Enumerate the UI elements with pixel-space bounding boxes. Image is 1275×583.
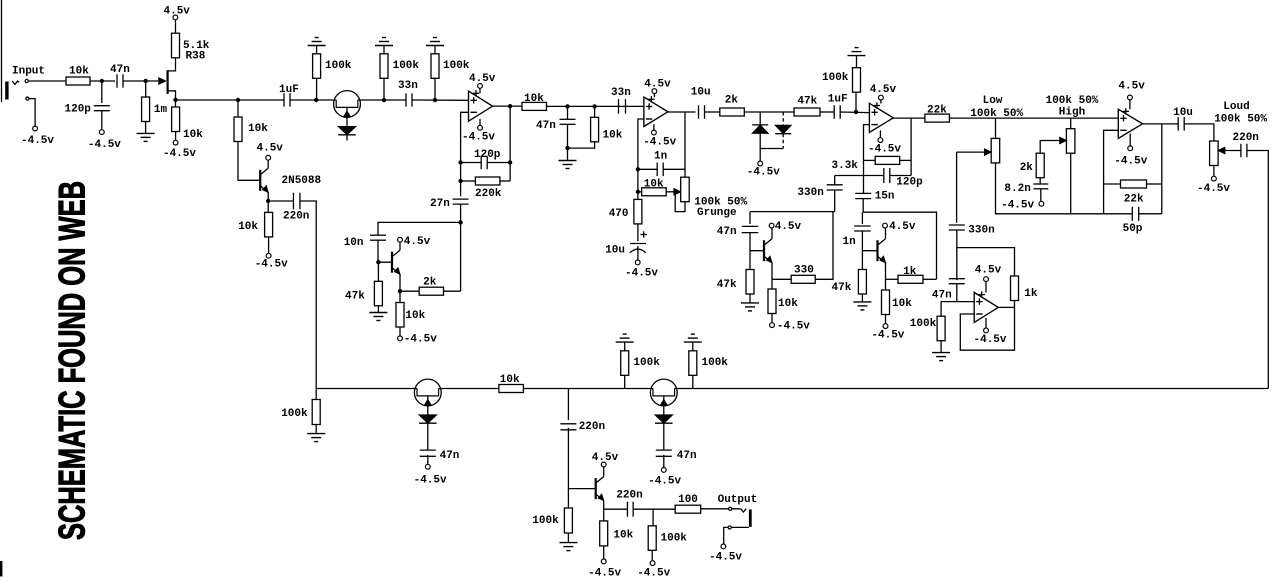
resistor 10k Q6 emitter (603, 509, 605, 521)
resistor 47k cell B (749, 251, 751, 270)
wire Low bottom to presence rail (996, 163, 1133, 214)
capacitor 120p U3 feedback (864, 175, 884, 177)
frame left border (1, 0, 3, 102)
svg-text:220n: 220n (579, 421, 605, 433)
resistor 10k bottom rail (499, 385, 524, 393)
wire 33n to 100k-3 (412, 99, 469, 101)
resistor 470 U2 feedback lower (637, 192, 639, 200)
svg-text:4.5v: 4.5v (257, 143, 284, 155)
resistor 100 output series (675, 505, 701, 513)
svg-text:4.5v: 4.5v (164, 6, 191, 18)
terminal 4.5v Q6 (603, 467, 605, 477)
capacitor 50p U4 feedback (1131, 207, 1133, 221)
wire 330n to rail A (834, 190, 836, 212)
resistor 3.3k U3 feedback (864, 159, 876, 161)
terminal 4.5v Q4 (771, 228, 773, 238)
svg-text:10k: 10k (778, 298, 798, 310)
svg-text:100k: 100k (443, 60, 470, 72)
svg-text:-4.5v: -4.5v (871, 329, 904, 341)
wire 47n to JFET gate (123, 80, 161, 82)
wire U3 out to tone rail (949, 117, 1118, 119)
wire High wiper to 2k (1040, 141, 1061, 154)
resistor 47k cell A (377, 262, 379, 281)
terminal 4.5v U1 (479, 88, 481, 93)
svg-text:27n: 27n (430, 198, 450, 210)
capacitor 330n cell D input (956, 152, 958, 223)
ground below 47k cell C (861, 294, 863, 302)
svg-text:2N5088: 2N5088 (282, 175, 322, 187)
terminal 4.5v U5 (985, 282, 987, 293)
resistor 5.1k R38 drain load (172, 33, 180, 58)
resistor 100k bias bottom mid1 (624, 351, 626, 389)
wire 1n to base cell C (862, 231, 876, 251)
capacitor 1uF stage1 coupling (283, 93, 285, 107)
wire 1uF to buffer1 (290, 99, 334, 101)
capacitor 220n output (1240, 144, 1242, 158)
capacitor 47n buffer B2 (427, 423, 429, 450)
terminal -4.5v cell B (771, 314, 773, 323)
svg-text:2k: 2k (725, 95, 739, 107)
svg-text:-4.5v: -4.5v (648, 476, 681, 488)
transistor Q5 cell C (876, 240, 878, 261)
resistor 10k cell B emitter (771, 279, 773, 289)
op-amp U3 (869, 103, 893, 132)
ground below 47k cell B (749, 294, 751, 303)
wire U3 output (893, 117, 925, 119)
wire U2 inverting input (638, 119, 644, 192)
svg-text:-4.5v: -4.5v (414, 475, 447, 487)
terminal -4.5v 2N5088 emitter (268, 237, 270, 254)
svg-text:220n: 220n (283, 211, 309, 223)
wire U2 feedback tap (684, 112, 686, 177)
terminal -4.5v Q6 emitter (603, 546, 605, 559)
svg-text:4.5v: 4.5v (889, 221, 916, 233)
svg-text:4.5v: 4.5v (469, 73, 496, 85)
ground above 100k buffer1 (308, 45, 326, 47)
svg-text:10k: 10k (69, 66, 89, 78)
svg-text:47n: 47n (932, 290, 952, 302)
op-amp U2 (644, 97, 668, 126)
wire 2k cellA to 27n junction (460, 222, 462, 291)
svg-text:100k: 100k (702, 357, 729, 369)
svg-text:120p: 120p (65, 104, 92, 116)
svg-text:4.5v: 4.5v (975, 265, 1002, 277)
buffer B3 circle transistor (650, 379, 677, 406)
diode below buffer B1 (338, 127, 356, 135)
svg-text:-4.5v: -4.5v (462, 131, 495, 143)
resistor 47k stage3 series (794, 108, 820, 116)
resistor 10k input series (66, 77, 90, 85)
capacitor 1n cell C (861, 212, 863, 224)
wire 10k to 47n (90, 80, 115, 82)
svg-text:22k: 22k (1124, 194, 1144, 206)
node 10k left junction (636, 190, 640, 194)
svg-text:1m: 1m (154, 104, 168, 116)
resistor 10k stage2 shunt (594, 106, 596, 117)
capacitor 15n below 3.3k (855, 192, 871, 194)
svg-text:4.5v: 4.5v (870, 84, 897, 96)
terminal -4.5v buffer B2 (427, 455, 429, 464)
terminal -4.5v 8.2n (1040, 189, 1042, 202)
node 1n left junction (636, 167, 640, 171)
svg-text:220k: 220k (475, 188, 502, 200)
capacitor 33n stage1 coupling (384, 99, 406, 101)
wire jack sleeve to -4.5v (29, 99, 35, 126)
wire 220n to bottom rail (1247, 151, 1268, 389)
wire rail A (750, 211, 835, 213)
svg-text:4.5v: 4.5v (775, 221, 802, 233)
svg-text:2k: 2k (1020, 162, 1034, 174)
node 2N5088 emitter junction (266, 199, 270, 203)
svg-text:22k: 22k (927, 105, 947, 117)
svg-text:R38: R38 (186, 51, 206, 63)
capacitor 47n input coupling (116, 74, 118, 88)
svg-text:330n: 330n (968, 225, 994, 237)
resistor 10k source bias (175, 100, 177, 107)
svg-text:100k: 100k (661, 533, 688, 545)
ground above 100k op3 (848, 55, 866, 57)
resistor 100k bias op3 (855, 92, 857, 112)
wire Loud wiper to 220n (1225, 150, 1241, 152)
capacitor 220n bottom (567, 389, 569, 421)
wire Q6 emitter (603, 501, 605, 510)
terminal -4.5v output jack (721, 544, 726, 549)
ground above 100k mid1 (616, 341, 634, 343)
resistor 100k bias bottom mid2 (692, 351, 694, 389)
capacitor 10n cell A (370, 234, 386, 236)
wire 47n to base cell B (750, 233, 763, 251)
svg-text:100k: 100k (910, 318, 937, 330)
terminal -4.5v jack sleeve (33, 126, 38, 131)
buffer B2 circle transistor (414, 379, 441, 406)
svg-text:Grunge: Grunge (697, 207, 737, 219)
svg-text:15n: 15n (875, 191, 895, 203)
svg-text:47k: 47k (797, 96, 817, 108)
wire U1 inverting input (461, 112, 469, 196)
svg-text:47k: 47k (832, 282, 852, 294)
capacitor 47n cell D (949, 278, 965, 280)
transistor Q4 cell B (763, 240, 765, 261)
resistor 100k base bias output Q (567, 489, 569, 508)
svg-text:47n: 47n (440, 450, 460, 462)
svg-text:-4.5v: -4.5v (88, 139, 121, 151)
wire 15n to rail B (862, 199, 864, 213)
wire emitter to 220n (267, 192, 269, 201)
svg-text:33n: 33n (611, 87, 631, 99)
diode D2 clipper down dashed (782, 112, 784, 125)
svg-text:100k: 100k (822, 72, 849, 84)
terminal -4.5v diodes (758, 161, 763, 166)
wire bottom feedback rail (316, 388, 414, 390)
svg-text:47k: 47k (345, 291, 365, 303)
diode below buffer B2 (419, 415, 437, 423)
resistor 100k bias 2 (383, 78, 385, 100)
node op3 input junction (854, 110, 858, 114)
resistor 100k bias 3 (434, 78, 436, 100)
svg-text:-4.5v: -4.5v (868, 144, 901, 156)
capacitor 1n U2 feedback (638, 168, 657, 170)
capacitor 47n stage2 shunt (567, 106, 569, 119)
svg-text:10k: 10k (405, 310, 425, 322)
wire 47n to op-amp plus (956, 284, 958, 302)
ground above 100k-2 (375, 45, 393, 47)
resistor 2k stage3 series (720, 108, 745, 116)
wire 220n to bottom rail (300, 201, 316, 389)
svg-text:-4.5v: -4.5v (255, 259, 288, 271)
wire 100 to output jack (701, 508, 741, 510)
resistor 10k stage2 series (522, 102, 547, 110)
resistor 47k cell C (861, 251, 863, 270)
svg-text:100k: 100k (393, 60, 420, 72)
JFET Q1 input (159, 78, 166, 84)
terminal -4.5v buffer B3 (663, 455, 665, 468)
terminal 4.5v Q3 (399, 242, 401, 250)
node Q3 emitter junction (398, 289, 402, 293)
node U1 output junction (508, 104, 512, 108)
wire U4 inverting input (1104, 130, 1119, 214)
transistor Q3 cell A (391, 252, 393, 273)
node source junction (173, 98, 177, 102)
svg-text:1k: 1k (1024, 288, 1038, 300)
wire cell D feedback rail (957, 248, 1015, 276)
wire U3 inverting input (864, 125, 870, 194)
op-amp U1 (469, 91, 493, 121)
capacitor 8.2n High filter (1039, 178, 1041, 184)
ground below 100k bottom left (315, 425, 317, 434)
terminal -4.5v U3 (879, 130, 881, 138)
svg-text:10n: 10n (344, 237, 364, 249)
svg-text:120p: 120p (896, 177, 923, 189)
svg-text:10k: 10k (644, 179, 664, 191)
wire U1 feedback right side (509, 106, 511, 181)
svg-text:SCHEMATIC FOUND ON WEB: SCHEMATIC FOUND ON WEB (52, 181, 93, 540)
terminal -4.5v Loud (1213, 166, 1215, 177)
terminal -4.5v cell A (399, 327, 401, 336)
terminal -4.5v U1 (479, 119, 481, 126)
terminal -4.5v U4 (1129, 134, 1131, 147)
capacitor 220n 2N5088 out (271, 200, 294, 202)
ground below 100k output (567, 533, 569, 543)
svg-text:Input: Input (12, 66, 45, 78)
svg-text:50p: 50p (1123, 223, 1143, 235)
resistor 10k to 2N5088 base (237, 100, 239, 117)
wire 330 to rail A (815, 212, 833, 280)
svg-text:100k: 100k (325, 60, 352, 72)
svg-text:Output: Output (718, 494, 758, 506)
svg-text:-4.5v: -4.5v (588, 568, 621, 580)
svg-text:10k: 10k (500, 374, 520, 386)
svg-text:1k: 1k (903, 266, 917, 278)
wire Q4 emitter (771, 263, 773, 280)
wire rail stage1 (176, 99, 285, 101)
svg-text:3.3k: 3.3k (832, 160, 859, 172)
svg-text:33n: 33n (398, 80, 418, 92)
wire U1 output (493, 105, 523, 107)
capacitor 47n cell B (749, 212, 751, 224)
resistor 100k bias buffer1 (316, 78, 318, 100)
resistor 10k cell C emitter (885, 279, 887, 290)
svg-text:4.5v: 4.5v (592, 452, 619, 464)
svg-text:10k: 10k (248, 123, 268, 135)
node cell A base (376, 260, 380, 264)
terminal 4.5v 2N5088 collector (267, 160, 269, 168)
resistor 10k 2N5088 emitter (267, 201, 269, 212)
wire 10u to Loud pot (1184, 124, 1214, 141)
wire buffer1 to next (360, 99, 384, 101)
svg-text:2k: 2k (423, 277, 437, 289)
wire 27n junction to 10n (378, 222, 461, 235)
ground below 1m (145, 122, 147, 134)
capacitor 1uF stage3 (833, 105, 835, 119)
wire Q3 emitter (399, 274, 401, 291)
svg-text:100k: 100k (532, 515, 559, 527)
capacitor 10u stage3 coupling (698, 105, 700, 119)
svg-text:10u: 10u (1173, 107, 1193, 119)
wire High bottom to presence rail (1070, 153, 1072, 214)
svg-text:100k 50%: 100k 50% (970, 108, 1023, 120)
svg-text:120p: 120p (474, 149, 501, 161)
svg-text:-4.5v: -4.5v (974, 334, 1007, 346)
svg-text:4.5v: 4.5v (1118, 81, 1145, 93)
node branch to 2N5088 (236, 98, 240, 102)
svg-text:4.5v: 4.5v (404, 236, 431, 248)
terminal -4.5v cell C (885, 315, 887, 324)
svg-text:1n: 1n (654, 151, 667, 163)
svg-text:10k: 10k (524, 93, 544, 105)
wire jack tip to R 10k (29, 80, 66, 82)
terminal 4.5v Q5 (885, 228, 887, 238)
svg-text:-4.5v: -4.5v (643, 137, 676, 149)
node 100k-3 junction (433, 98, 437, 102)
resistor 22k U4 feedback (1104, 183, 1121, 185)
ground below 100k cell D (940, 341, 942, 353)
wire Q5 emitter (885, 263, 887, 280)
wire rail B (863, 212, 936, 279)
frame left lower tick (0, 561, 2, 577)
svg-text:47n: 47n (110, 64, 130, 76)
terminal 4.5v U2 (653, 94, 655, 98)
terminal 4.5v U3 (880, 100, 882, 104)
wire Low wiper to 330n (957, 151, 986, 153)
svg-text:10k: 10k (892, 298, 912, 310)
resistor 2k High filter (1036, 153, 1044, 178)
svg-text:100: 100 (678, 494, 698, 506)
potentiometer Grunge 100k 50% (674, 189, 681, 195)
wire U5 feedback box (960, 307, 1014, 350)
svg-text:100k: 100k (281, 408, 308, 420)
wire U4 output (1143, 123, 1179, 125)
wire grunge wiper tie (675, 192, 685, 212)
wire U5 output (998, 306, 1014, 308)
capacitor 33n stage2 (618, 99, 620, 114)
svg-text:330: 330 (794, 264, 814, 276)
node gate (144, 79, 148, 83)
op-amp U4 (1118, 109, 1142, 138)
resistor 2k cell A feedback (400, 290, 419, 292)
node fb1 (458, 160, 462, 164)
capacitor 47n buffer B3 (663, 423, 665, 450)
wire diode pair to -4.5v (760, 149, 783, 162)
ground below 47k cell A (377, 306, 379, 313)
terminal -4.5v source (175, 132, 177, 141)
resistor 1k cell C (886, 278, 899, 280)
svg-text:47n: 47n (536, 120, 556, 132)
svg-text:47n: 47n (677, 450, 697, 462)
wire 220n to output Q base (568, 428, 594, 489)
wire jack sleeve to -4.5v (724, 527, 749, 544)
terminal -4.5v 10u (635, 260, 640, 265)
node 27n junction (458, 220, 462, 224)
buffer B1 circle transistor (334, 91, 361, 118)
capacitor 330n U3 to rail A (835, 175, 864, 177)
diode below buffer B3 (655, 415, 673, 423)
resistor 100k bottom left (315, 389, 317, 400)
svg-text:10k: 10k (238, 221, 258, 233)
capacitor 10u output coupling (1177, 117, 1179, 130)
wire 47n to ground stage2 (567, 124, 569, 160)
svg-text:High: High (1059, 107, 1085, 119)
svg-text:-4.5v: -4.5v (163, 148, 196, 160)
capacitor 120p to -4.5v (101, 81, 103, 103)
resistor 100k cell D to ground (941, 301, 957, 303)
ground above 100k mid2 (684, 341, 702, 343)
svg-text:-4.5v: -4.5v (625, 268, 658, 280)
svg-text:-4.5v: -4.5v (1197, 183, 1230, 195)
wire 10n to base (378, 240, 391, 262)
svg-text:-4.5v: -4.5v (21, 135, 54, 147)
svg-text:1uF: 1uF (828, 94, 848, 106)
svg-text:Low: Low (983, 95, 1003, 107)
svg-text:1n: 1n (843, 236, 856, 248)
svg-text:10u: 10u (605, 245, 625, 257)
wire U2 output (668, 111, 696, 113)
terminal -4.5v U2 (653, 124, 655, 130)
svg-text:-4.5v: -4.5v (1114, 156, 1147, 168)
wire 10k to base (238, 142, 259, 181)
wire 10k shunt to ground (568, 142, 595, 148)
resistor 1m gate bias (145, 81, 147, 97)
capacitor 10u polarized to -4.5v (637, 224, 639, 241)
transistor Q6 output (595, 478, 597, 499)
svg-text:220n: 220n (616, 489, 642, 501)
resistor 22k tone series (925, 114, 950, 122)
svg-text:-4.5v: -4.5v (747, 167, 780, 179)
resistor 220k U1 feedback (461, 180, 476, 182)
resistor 1k cell D feedback (1011, 276, 1019, 301)
svg-text:10u: 10u (691, 87, 711, 99)
transistor 2N5088 Q2 (259, 170, 261, 191)
svg-text:220n: 220n (1233, 132, 1259, 144)
diode D1 clipper up (759, 112, 761, 125)
resistor 10k cell A emitter (399, 291, 401, 302)
terminal -4.5v U5 (985, 318, 987, 328)
resistor 100k output shunt (652, 509, 654, 526)
node 100k-2 junction (382, 98, 386, 102)
svg-text:-4.5v: -4.5v (777, 320, 810, 332)
svg-text:10k: 10k (613, 530, 633, 542)
wire U3 feedback right side (910, 118, 912, 175)
op-amp U5 cell D (974, 292, 998, 322)
wire 330n to fb rail (956, 230, 958, 280)
ground stage2 (559, 160, 577, 162)
capacitor 120p U1 feedback (461, 162, 482, 164)
svg-text:-4.5v: -4.5v (1001, 200, 1034, 212)
svg-text:100k: 100k (633, 357, 660, 369)
svg-text:330n: 330n (797, 187, 823, 199)
capacitor 220n output coupling (604, 508, 628, 510)
svg-text:100k 50%: 100k 50% (1214, 114, 1267, 126)
svg-text:10k: 10k (603, 130, 623, 142)
